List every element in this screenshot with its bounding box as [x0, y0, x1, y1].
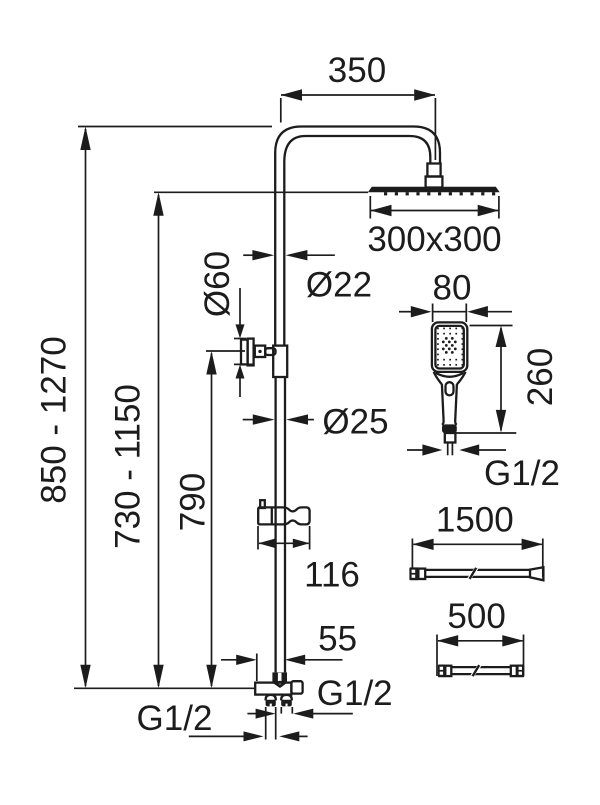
- hose 1500 left collar: [418, 569, 425, 579]
- wall bracket arm: [265, 348, 275, 355]
- dimension 730-1150 vertical line: [109, 192, 369, 688]
- hose 500 break mark: [470, 666, 481, 675]
- hose 1500 body: [425, 569, 530, 571]
- hand shower outlet cylinder: [445, 433, 456, 443]
- svg-text:850 - 1270: 850 - 1270: [35, 336, 74, 503]
- mixer extension lines: [265, 707, 267, 740]
- dimension G1/2 row2: [189, 731, 308, 741]
- dimension 80: [399, 269, 512, 323]
- shower arm inner contour: [284, 136, 430, 346]
- dimension diam25: [243, 403, 389, 442]
- bottom baseline: [74, 687, 256, 689]
- dimension diam60: [198, 251, 254, 397]
- svg-text:Ø22: Ø22: [306, 266, 372, 305]
- hand shower neck transition: [436, 373, 464, 377]
- dimension 790 vertical line: [174, 351, 246, 688]
- svg-text:1500: 1500: [436, 501, 514, 540]
- dimension 260: [457, 326, 561, 434]
- mixer nut left: [266, 695, 276, 701]
- hose 500 body: [451, 666, 511, 668]
- hose 500 left fitting: [438, 665, 445, 678]
- dimension 300x300: [367, 196, 501, 259]
- hand shower face plate: [435, 326, 463, 369]
- dimension G1/2 hand shower: [407, 444, 560, 493]
- svg-text:G1/2: G1/2: [137, 699, 213, 738]
- arm connector block: [426, 177, 443, 188]
- svg-text:730 - 1150: 730 - 1150: [109, 384, 148, 549]
- hand shower button: [446, 382, 454, 395]
- mixer cone joint: [272, 681, 287, 686]
- dimension 500: [437, 597, 524, 676]
- svg-text:260: 260: [521, 348, 560, 406]
- dimension 850-1270 vertical line: [35, 127, 273, 689]
- hand shower handle: [442, 384, 444, 425]
- hand shower taper left: [434, 372, 442, 384]
- mixer nut right: [281, 695, 292, 701]
- hand shower head: [432, 322, 467, 372]
- slider holder tab: [260, 500, 265, 508]
- dimension 1500: [412, 501, 542, 578]
- overhead shower plate: [368, 187, 500, 192]
- arm connector nut: [427, 164, 440, 177]
- wall bracket body: [255, 346, 265, 357]
- hand shower face dots: [437, 328, 463, 366]
- svg-text:116: 116: [304, 556, 360, 595]
- dimension 116: [258, 526, 360, 595]
- svg-text:80: 80: [433, 269, 472, 308]
- svg-text:G1/2: G1/2: [317, 674, 393, 713]
- svg-text:300x300: 300x300: [367, 220, 501, 259]
- svg-text:Ø25: Ø25: [322, 403, 388, 442]
- hose 1500 right cone: [530, 567, 543, 580]
- hose 1500 break mark: [467, 569, 478, 578]
- mixer outlet: [291, 681, 302, 693]
- mixer top nut: [272, 672, 287, 681]
- overhead shower nozzles: [384, 192, 495, 195]
- svg-text:G1/2: G1/2: [484, 454, 560, 493]
- pipe clamp: [273, 346, 287, 377]
- hand shower stub: [447, 443, 449, 456]
- svg-text:350: 350: [328, 51, 386, 90]
- dimension 55: [221, 620, 357, 682]
- hose 1500 left fitting: [409, 567, 418, 580]
- svg-text:500: 500: [447, 597, 505, 636]
- riser pipe lower (diam25): [274, 377, 276, 672]
- svg-text:790: 790: [174, 473, 213, 531]
- svg-text:55: 55: [318, 620, 357, 659]
- svg-text:Ø60: Ø60: [198, 251, 237, 317]
- dimension G1/2 row1: [247, 709, 352, 719]
- hose 500 right collar: [511, 666, 517, 676]
- mixer body: [255, 683, 291, 695]
- hand shower cone end: [442, 424, 457, 433]
- hose 500 right fitting: [517, 665, 524, 678]
- dimension diam22: [243, 250, 372, 305]
- hand shower taper right: [457, 372, 466, 384]
- slider holder: [258, 507, 309, 524]
- dimension 350 top: [281, 51, 436, 160]
- hose 500 left collar: [445, 666, 451, 676]
- wall bracket flange plates: [241, 340, 248, 365]
- shower arm outer contour: [275, 127, 440, 347]
